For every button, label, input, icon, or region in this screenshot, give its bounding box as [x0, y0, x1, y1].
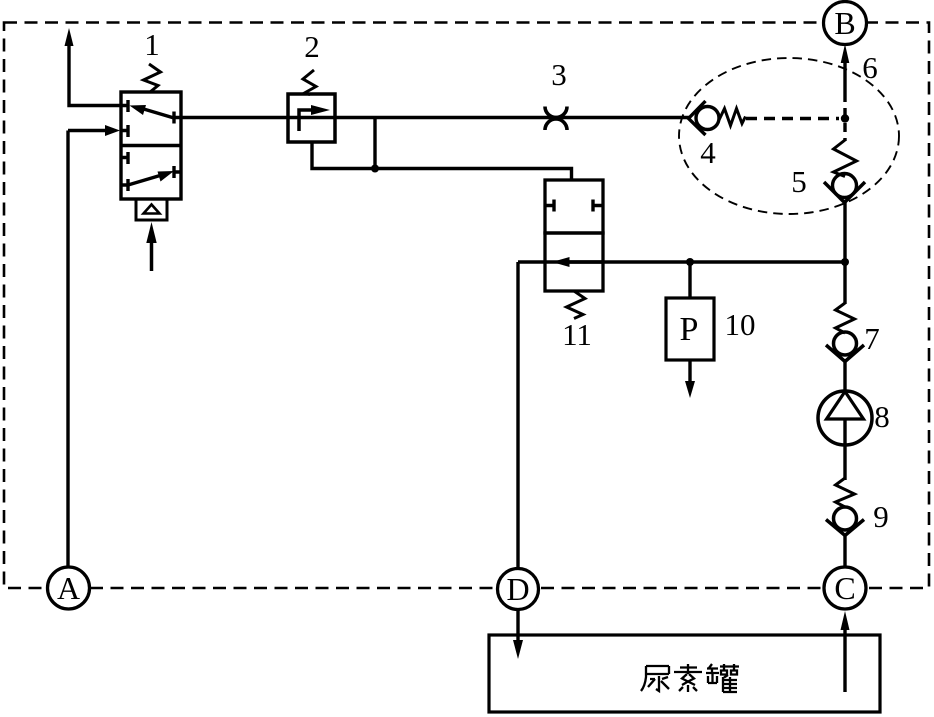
valve 11 (2/2 pilot valve)	[545, 180, 603, 319]
terminal D	[498, 569, 539, 610]
pressure sensor 10 (P box)	[666, 298, 714, 360]
svg-text:11: 11	[562, 317, 592, 352]
wire: node to check 7	[843, 262, 846, 304]
char 罐	[706, 664, 739, 692]
wire: P sensor branch	[688, 262, 691, 298]
dashed enclosure border	[4, 23, 929, 589]
svg-text:5: 5	[791, 164, 807, 199]
svg-text:10: 10	[725, 307, 756, 342]
wire: P sensor vent arrow	[688, 360, 691, 384]
check valve 9	[826, 478, 864, 536]
node: junction dot P branch	[686, 258, 694, 266]
terminal C	[824, 567, 866, 609]
svg-text:6: 6	[862, 50, 878, 85]
wire: check 7 to pump 8	[843, 360, 846, 391]
check valve 7	[826, 303, 864, 362]
node: junction dot line 6	[841, 114, 849, 122]
terminal B	[824, 2, 867, 45]
svg-text:C: C	[834, 570, 855, 606]
wire: B port arrow and dashed line 6	[841, 44, 850, 63]
tank label text 尿素罐 (drawn strokes)	[641, 664, 739, 692]
valve 1 (pilot operated directional valve)	[121, 64, 181, 271]
orifice 3 (flow restrictor)	[545, 107, 567, 131]
wire: riser from main line to branch	[373, 118, 376, 169]
wire: D to tank with down arrow	[516, 609, 519, 643]
char 尿	[641, 666, 669, 691]
check valve 5	[824, 140, 865, 203]
urea tank box	[489, 635, 880, 712]
wire: dashed pilot line from check 4 to node	[746, 117, 839, 120]
node: junction dot branch	[371, 165, 379, 173]
svg-text:D: D	[506, 571, 529, 607]
svg-text:P: P	[680, 311, 699, 348]
wire: lower main line D riser to pump column	[518, 262, 845, 568]
wire: check 9 to C	[843, 534, 846, 567]
wire: C to tank with up arrow	[841, 611, 850, 630]
svg-text:7: 7	[864, 321, 880, 356]
terminal A	[48, 567, 90, 609]
wire: main line valve1 - regulator2 - orifice3 - check4	[181, 116, 689, 119]
svg-text:9: 9	[873, 499, 889, 534]
wire: regulator 2 bottom branch to valve 11 pilot	[312, 142, 572, 180]
wire: check 5 to lower main line	[843, 202, 846, 262]
regulator 2 (pressure reducing valve)	[288, 70, 335, 142]
svg-text:B: B	[834, 5, 855, 41]
svg-text:A: A	[57, 570, 80, 606]
wire: A riser to valve 1 port with arrow	[68, 131, 106, 569]
pump 8	[818, 391, 872, 445]
dashed ellipse around 4,5,6	[679, 58, 899, 214]
char 素	[674, 664, 702, 692]
wire: valve 1 port to top exhaust arrow	[69, 46, 121, 106]
wire: pump 8 to spring 9	[843, 445, 846, 480]
check valve 4 (spring loaded, in dashed circle)	[689, 101, 746, 135]
svg-text:2: 2	[304, 29, 320, 64]
svg-text:4: 4	[700, 135, 716, 170]
svg-text:8: 8	[874, 399, 890, 434]
svg-text:1: 1	[144, 27, 160, 62]
node: junction dot pump column	[841, 258, 849, 266]
wire: dashed below node to check 5 spring	[843, 123, 846, 141]
svg-text:3: 3	[551, 57, 567, 92]
